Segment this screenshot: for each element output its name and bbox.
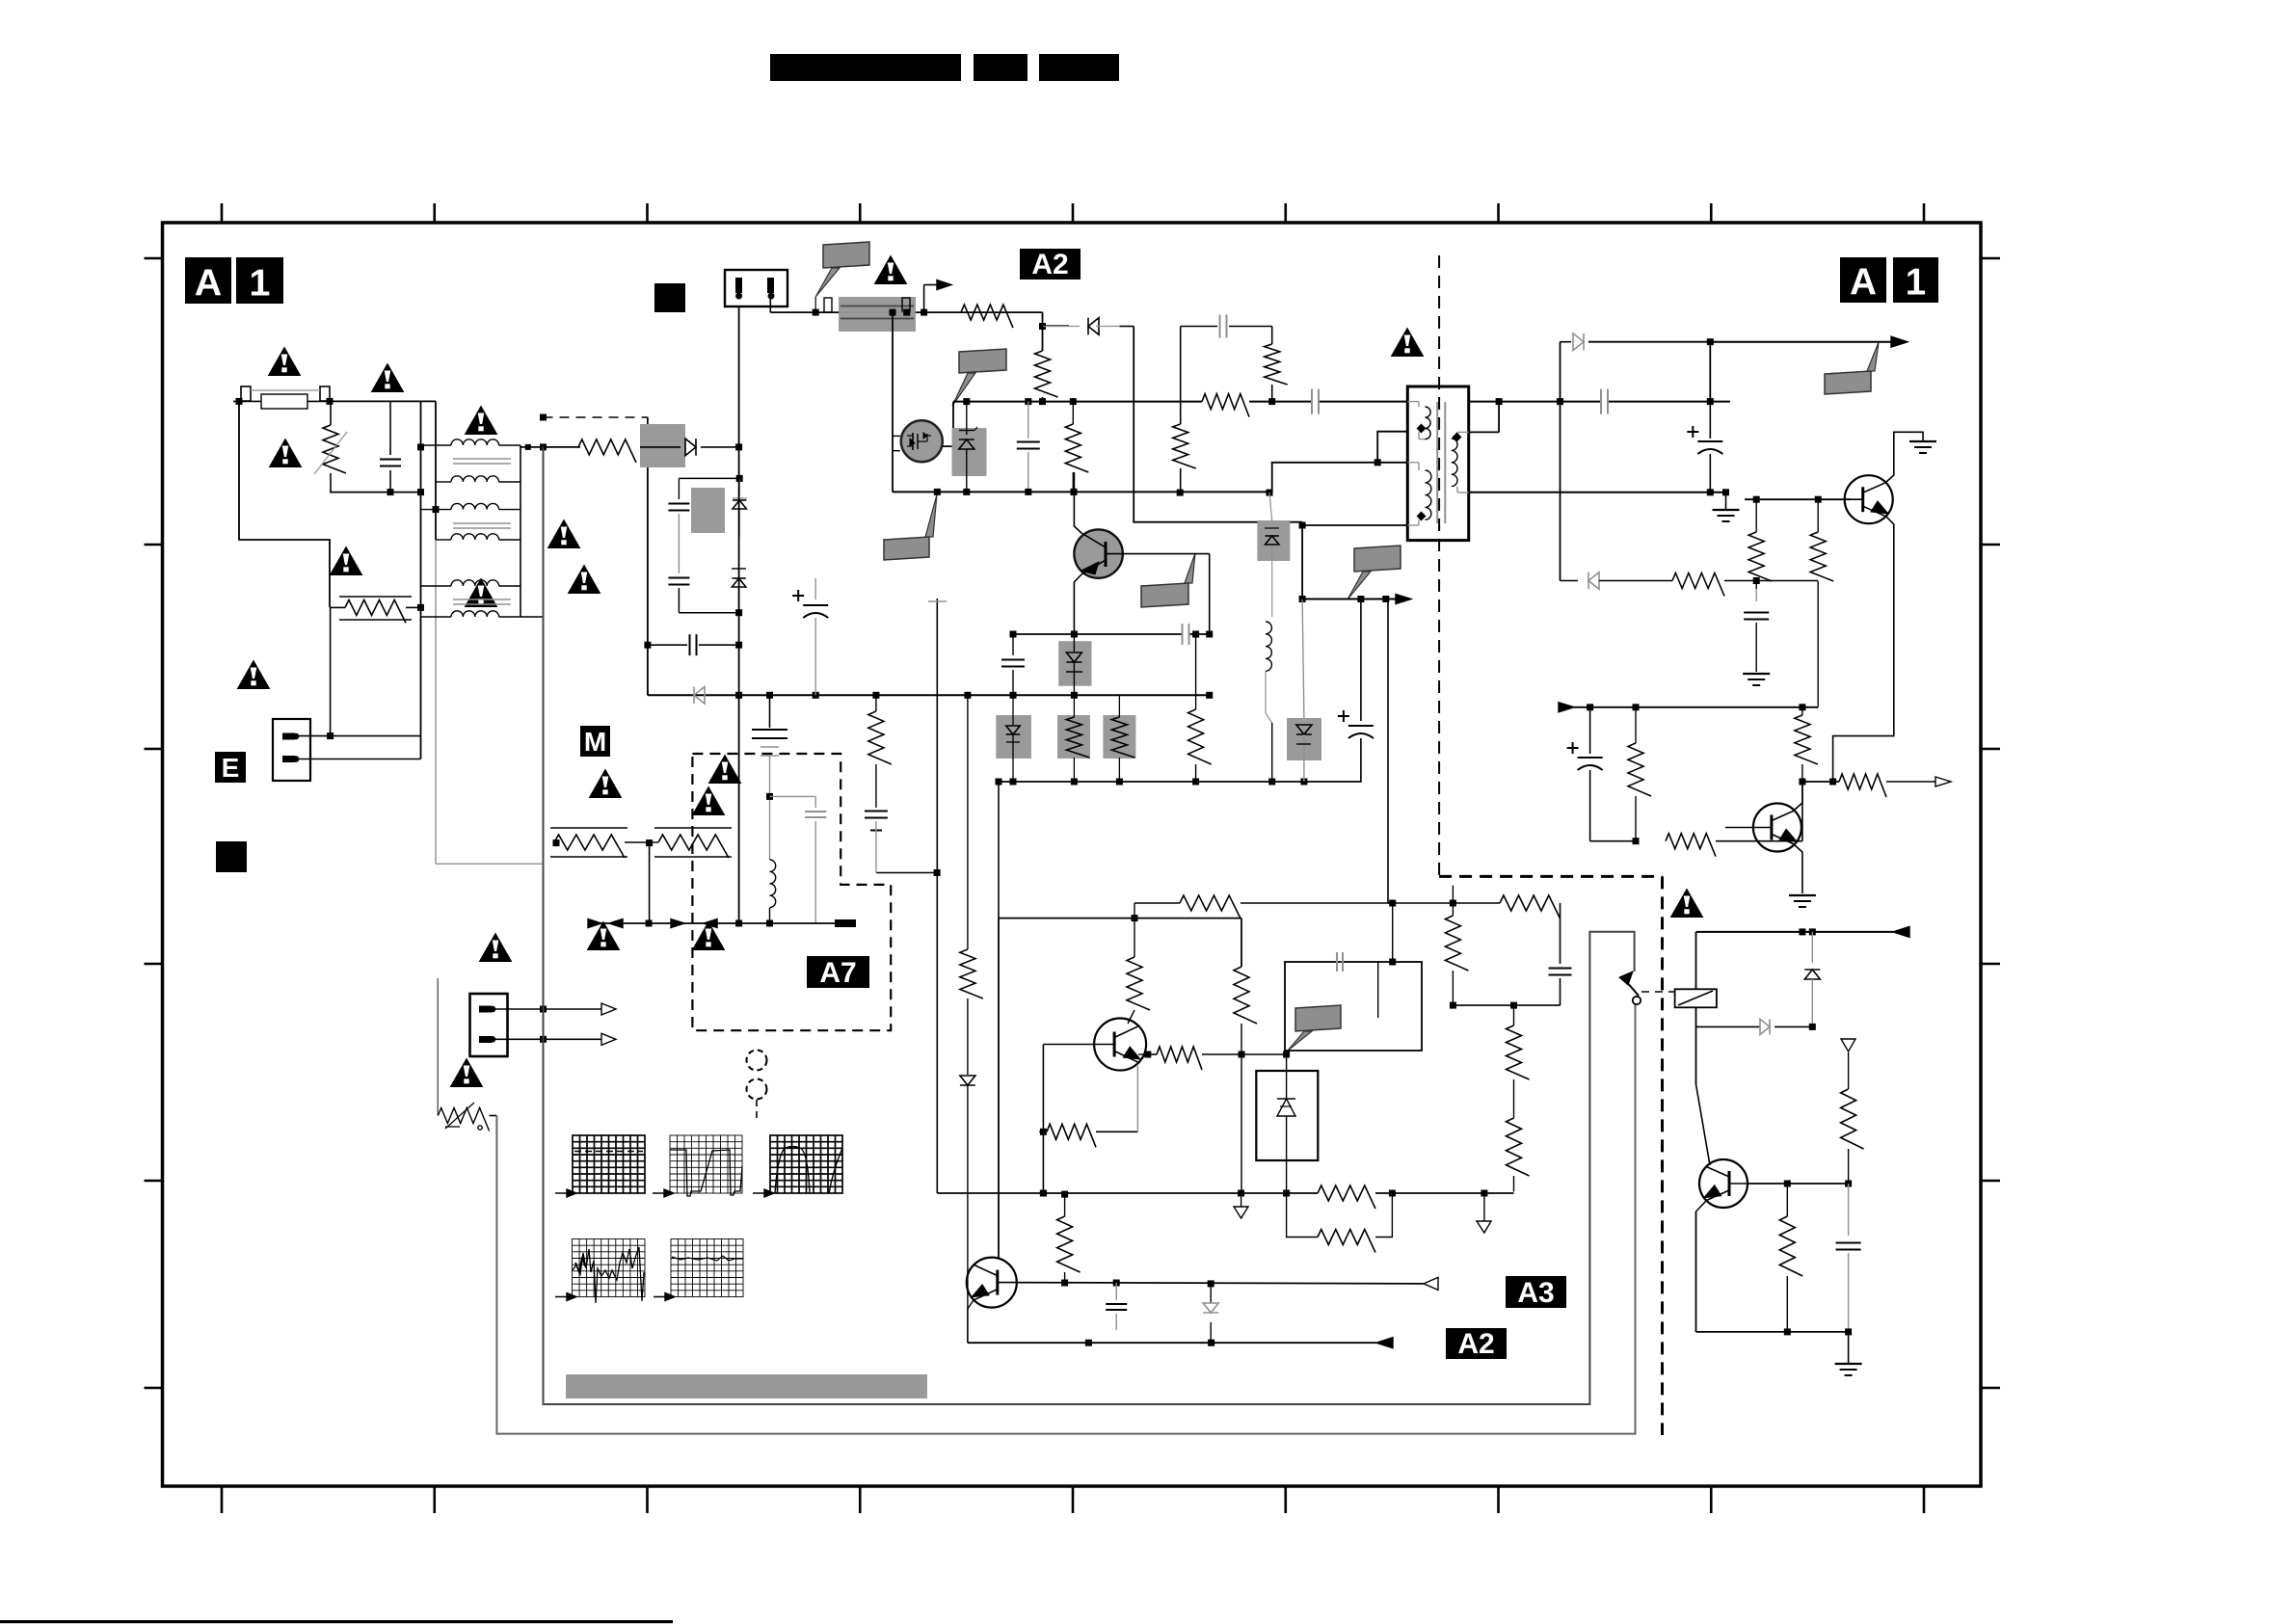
junction sec bus2: [1557, 398, 1563, 405]
callout flag 1: [823, 242, 869, 268]
capacitor C doubler: [678, 478, 680, 499]
gray box bridge: [640, 424, 685, 467]
wire A7 bottom bus: [588, 922, 848, 924]
capacitor C snub: [1181, 326, 1217, 328]
svg-text:1: 1: [1906, 262, 1926, 304]
junction aux gnd d: [872, 692, 879, 699]
wire service pin1: [493, 1008, 601, 1010]
grid arrow 5: [654, 1296, 669, 1298]
capacitor C x2: [648, 644, 687, 646]
wire ctl right: [1241, 918, 1242, 967]
junction sec ret: [1707, 489, 1714, 495]
connector E pin 2: [282, 756, 295, 762]
junction out arrow: [1707, 338, 1714, 345]
label E: [215, 752, 246, 783]
junction ctl a: [1132, 915, 1138, 921]
open arrow a3: [1424, 1277, 1438, 1290]
junction reg fb: [1753, 577, 1760, 584]
resistor R out sense: [1839, 774, 1886, 797]
wire V5-left: [647, 417, 649, 695]
junction hv a: [963, 398, 970, 405]
resistor R snub leg: [1173, 424, 1196, 468]
wire sec diode top: [1560, 342, 1561, 402]
zener D clamp: [966, 402, 968, 435]
warning triangle 4: [331, 547, 362, 575]
test point circle 2: [747, 1079, 767, 1100]
junction q4 b: [1040, 1190, 1047, 1197]
wire reg out bus: [1802, 781, 1839, 783]
connector E box: [273, 719, 310, 781]
junction v5 mid: [735, 609, 742, 616]
callout flag 5: [1825, 371, 1871, 394]
junction V2 a: [433, 506, 440, 513]
junction E pin1: [327, 732, 334, 739]
svg-text:M: M: [584, 727, 606, 757]
wire aux bus 811: [999, 781, 1362, 783]
junction ret a: [934, 489, 941, 495]
resistor R fb2: [1452, 886, 1454, 916]
label A1 top-left: [185, 257, 231, 304]
gray box zener mid: [1058, 641, 1091, 686]
label A1 top-right: [1840, 257, 1886, 303]
wire A7 link: [770, 795, 816, 797]
ground ref stb: [1841, 1039, 1855, 1052]
transformer T1 secondary winding: [1457, 431, 1469, 433]
relay K1: [1675, 989, 1717, 1007]
wire Q2 emitter: [1074, 574, 1081, 634]
wire sec return: [1469, 492, 1726, 493]
junction q5 a: [1061, 1280, 1068, 1287]
transistor Q sense: [1753, 804, 1801, 852]
resistor R snub leg2: [1265, 344, 1288, 385]
oscillogram grid 1: [573, 1135, 645, 1193]
wire service drop: [437, 978, 439, 1116]
junction aux: [1809, 1024, 1816, 1030]
junction aux gnd a: [735, 692, 742, 699]
preset pot P2: [654, 827, 732, 829]
wire fb bus 937: [1134, 902, 1180, 904]
transistor Q2 primary: [1074, 529, 1122, 577]
choke L1 winding a: [421, 444, 452, 446]
ground ref ctl2: [1483, 1193, 1485, 1221]
diode D fb: [1588, 572, 1599, 590]
wire pot drop: [649, 843, 651, 923]
capacitor C mid left: [1012, 634, 1014, 655]
callout flag 4: [1354, 546, 1401, 572]
junction pot1: [553, 839, 560, 846]
warning triangle 12: [1392, 329, 1424, 357]
warning triangle 9: [238, 661, 270, 689]
opto U1 box: [1256, 1071, 1318, 1160]
junction A7 bot2: [735, 920, 742, 927]
junction drive bus: [813, 309, 819, 316]
diode D bridge: [640, 446, 680, 448]
capacitor C X big: [769, 695, 771, 728]
junction V5 bridge: [735, 443, 742, 450]
warning triangle 16: [588, 922, 620, 950]
wire vertical V2: [435, 401, 437, 540]
dashed relay link: [1641, 991, 1675, 993]
capacitor C fb: [1549, 968, 1572, 970]
arrow start pulse: [923, 285, 925, 313]
resistor R reg2: [1817, 499, 1819, 532]
callout flag 6: [1141, 583, 1188, 607]
junction a2 b: [1208, 1340, 1214, 1346]
grid arrow 4: [555, 1296, 571, 1298]
wire stb bottom bus: [1696, 1331, 1849, 1333]
junction aux gnd h: [1206, 692, 1213, 699]
junction hv c: [1039, 398, 1046, 405]
junction stb d: [1845, 1181, 1852, 1187]
diode D a2: [960, 1076, 975, 1085]
zener gray box G8: [1257, 520, 1290, 561]
wire fb corner: [1560, 903, 1561, 964]
tl431 block box: [1285, 962, 1422, 1051]
diode D a3: [1210, 1284, 1212, 1303]
junction aux gnd g: [1071, 692, 1078, 699]
wire sense down: [1134, 327, 1302, 526]
capacitor C q5: [1115, 1283, 1117, 1300]
junction stb e: [1784, 1328, 1791, 1335]
warning triangle 15: [693, 787, 725, 815]
wire reg base bus: [1745, 498, 1851, 500]
capacitor C aux1: [865, 811, 888, 812]
resistor R aux2: [1195, 634, 1197, 709]
junction reg base b: [1815, 496, 1822, 503]
grid arrow 2: [653, 1192, 668, 1194]
title bar block 2: [974, 54, 1027, 81]
warning triangle 8: [466, 579, 497, 607]
resistor R ctl1: [1134, 903, 1135, 957]
capacitor C auxB electrolytic: [1360, 599, 1362, 722]
junction choke-out: [525, 444, 531, 450]
resistor R drive: [961, 305, 1013, 328]
zener D v5: [738, 564, 740, 574]
transformer T1 primary winding: [1407, 401, 1419, 403]
diode D snub: [1043, 326, 1080, 328]
choke L3 winding b: [421, 616, 452, 618]
arrow pair 1: [588, 919, 601, 928]
warning triangle 3: [270, 439, 302, 467]
resistor R sb2: [1666, 834, 1716, 857]
wire gate drop: [892, 312, 894, 492]
junction mid c: [1206, 631, 1213, 638]
wire tap step: [1269, 432, 1407, 493]
fuse F1: [241, 386, 251, 401]
zener D doubler: [738, 478, 740, 496]
wire Q stb collector: [1695, 1026, 1697, 1084]
resistor R q4: [1157, 1047, 1202, 1070]
resistor R fb inline: [1500, 895, 1561, 918]
wire Q sense base: [1725, 827, 1752, 829]
junction q5 b: [1113, 1280, 1120, 1287]
resistor R ctl2: [1234, 967, 1257, 1024]
grid arrow 3: [753, 1192, 768, 1194]
wire aux gnd bus 721: [647, 690, 649, 695]
isolation dashed line: [1438, 255, 1440, 876]
label A3: [1506, 1276, 1566, 1308]
junction A7 bot3: [766, 920, 773, 927]
junction V1 b: [417, 489, 424, 495]
junction row0: [996, 779, 1002, 785]
junction fb f: [1510, 1002, 1517, 1009]
wire Q4 emitter right: [1138, 1053, 1148, 1055]
junction ret c: [1025, 489, 1031, 495]
junction hv b: [1025, 398, 1031, 405]
junction ret g: [1267, 490, 1273, 496]
zener D row1: [1012, 695, 1014, 725]
PTC thermistor: [330, 606, 345, 608]
bottom rule line: [0, 1620, 673, 1623]
wire HV bus: [953, 401, 1202, 403]
junction tap: [1374, 459, 1381, 466]
isolation dashed line 2: [1661, 876, 1664, 1435]
junction mid b: [1071, 631, 1078, 638]
junction ctl f: [1481, 1190, 1487, 1197]
gray box zener row1: [996, 715, 1031, 759]
capacitor C aux electrolytic: [814, 578, 816, 599]
black square marker 2: [216, 841, 247, 872]
junction ctl d: [1238, 1190, 1244, 1197]
junction ctl b: [1239, 1052, 1245, 1058]
wire safety loop B: [496, 1003, 1635, 1434]
wire Q5 base bus: [1015, 1283, 1424, 1284]
junction V1 c: [417, 604, 424, 611]
junction aux gnd c: [813, 692, 819, 699]
resistor R row2: [1073, 695, 1075, 717]
junction q4 d: [1283, 1052, 1290, 1058]
gray redacted bar: [566, 1374, 927, 1398]
wire aux rail: [1696, 1025, 1761, 1027]
junction input-c: [387, 489, 394, 495]
wire ctl top bus: [999, 918, 1241, 919]
wire standby bus: [1696, 931, 1894, 933]
junction 811 a: [1192, 779, 1199, 785]
junction 811 b: [1268, 779, 1275, 785]
wire relay down: [1695, 1007, 1697, 1084]
junction sb b: [1633, 704, 1640, 710]
warning triangle 1: [269, 348, 301, 376]
resistor R sb: [1635, 707, 1637, 743]
warning triangle 2: [372, 364, 404, 392]
warning triangle 13: [590, 770, 622, 798]
capacitor C A7: [805, 811, 826, 812]
warning triangle 11: [875, 256, 907, 284]
wire drive bus right: [839, 311, 916, 313]
junction mid a: [1010, 631, 1017, 638]
wire mains L-loop: [239, 402, 330, 607]
connector mains pin1: [735, 278, 742, 293]
label M: [580, 726, 610, 757]
transformer T1 box: [1407, 386, 1468, 541]
choke L2 winding b: [436, 539, 451, 541]
junction auxB b: [1382, 596, 1389, 602]
choke L2 core: [453, 522, 511, 524]
junction auxB a: [1357, 596, 1364, 602]
resistor R hv inline: [1202, 394, 1249, 417]
diode D aux: [1760, 1019, 1770, 1034]
junction ret b: [963, 489, 970, 495]
junction sb c: [1799, 704, 1805, 710]
connector service pin1: [479, 1006, 492, 1013]
junction q5 d: [1061, 1191, 1068, 1198]
junction stb c: [1784, 1181, 1791, 1187]
wire E pin2: [296, 759, 421, 760]
choke L1 winding b: [436, 481, 451, 483]
warning triangle 7: [569, 566, 600, 594]
grid arrow 1: [555, 1192, 571, 1194]
resistor R reg3: [1801, 707, 1803, 715]
wire Q out emitter: [1833, 517, 1894, 782]
gray box doubler: [691, 488, 725, 533]
frame tick marks: [145, 203, 2001, 1513]
junction row1: [1010, 779, 1017, 785]
warning triangle 10: [480, 934, 512, 962]
wire safety loop A: [544, 447, 1635, 1404]
junction pot mid: [646, 839, 653, 846]
wire Q2 collector: [1074, 472, 1081, 533]
wire out drop: [1709, 342, 1711, 402]
switch S interlock: [1625, 980, 1639, 996]
capacitor C sec inline: [1600, 389, 1602, 414]
junction stb b: [1809, 928, 1816, 935]
inductor L A7: [769, 800, 771, 860]
isolation dashed horizontal: [1439, 875, 1662, 878]
label A7: [807, 956, 869, 988]
junction gate node: [890, 309, 896, 316]
wire Q stb emitter: [1696, 1201, 1707, 1211]
resistor R div1: [1513, 1005, 1515, 1025]
warning triangle 19: [1671, 890, 1703, 918]
junction hv d: [1070, 398, 1077, 405]
wire ctl feed: [998, 782, 1000, 918]
capacitor C input: [389, 401, 391, 455]
wire V5 main vertical: [738, 306, 740, 923]
oscillogram grid 2: [670, 1135, 742, 1193]
resistor R div2: [1507, 1118, 1530, 1176]
junction fb e: [1450, 1002, 1456, 1009]
ground stb: [1848, 1332, 1850, 1363]
junction sec top: [1496, 398, 1503, 405]
junction aux gnd f: [1010, 692, 1017, 699]
junction ctl c: [1040, 1190, 1047, 1197]
capacitor C clamp: [1027, 402, 1029, 439]
wire gray link: [436, 863, 544, 865]
wire mosfet drain: [943, 402, 953, 447]
preset pot P1: [550, 827, 627, 829]
wire fb bottom: [1453, 1004, 1560, 1006]
connector E pin 1: [282, 733, 295, 740]
junction x2 a: [644, 642, 651, 649]
choke L1 core: [453, 458, 511, 460]
junction sec gnd: [1722, 489, 1729, 495]
test point circle 1: [747, 1051, 767, 1071]
junction A7 bot: [646, 920, 653, 927]
capacitor C v5: [668, 577, 689, 579]
wire tl mid: [1377, 962, 1379, 1018]
wire auxB bus: [1302, 599, 1396, 600]
junction q4 a: [1040, 1129, 1047, 1135]
opto U1 led: [1286, 1054, 1288, 1099]
resistor R aux1: [875, 695, 877, 711]
wire mains pin2 drop: [769, 296, 771, 312]
ground sec: [1725, 493, 1727, 509]
wire vertical V1: [420, 401, 422, 759]
wire ctl bus 1238: [938, 1192, 1319, 1194]
junction fb d: [1450, 900, 1456, 907]
resistor R q5: [1064, 1194, 1066, 1216]
choke L2 winding a: [421, 509, 452, 511]
wire primary return bus: [893, 491, 1269, 493]
connector mains box: [725, 270, 787, 306]
wire sec HV bus: [1469, 401, 1600, 403]
junction Q2 coll: [1071, 489, 1078, 495]
gray box zener clamp: [952, 428, 987, 476]
junction fuse-left: [236, 398, 243, 405]
junction aux gnd b: [766, 692, 773, 699]
wire Q2 base right: [1122, 553, 1210, 555]
junction stb a: [1799, 928, 1805, 935]
transistor Q standby: [1699, 1159, 1748, 1208]
capacitor C tl inline: [1336, 952, 1338, 972]
wire Q sense collector: [1795, 782, 1802, 810]
arrow pair 2: [671, 919, 684, 928]
wire stub link: [876, 872, 937, 874]
potentiometer P main: [438, 1108, 489, 1131]
wire Q stb base bus: [1748, 1183, 1849, 1185]
junction sb a: [1587, 704, 1593, 710]
wire auxB sense: [1387, 599, 1389, 904]
connector mains pin2: [767, 278, 774, 293]
junction x2 b: [735, 642, 742, 649]
wire mid bus 658: [1013, 633, 1182, 635]
wire T stub: [936, 599, 938, 1193]
svg-text:E: E: [222, 753, 240, 783]
junction polyA-top: [540, 443, 547, 450]
junction stub link: [934, 869, 941, 876]
capacitor C reg: [1755, 589, 1757, 601]
junction ctl e: [1283, 1190, 1290, 1197]
wire snubber legs: [1180, 327, 1182, 425]
oscillogram grid 5: [671, 1239, 743, 1297]
label A2 top: [1020, 249, 1081, 280]
choke L3 core: [453, 599, 511, 600]
svg-text:A2: A2: [1031, 249, 1068, 280]
junction sec cap: [1707, 398, 1714, 405]
wire A2 bus: [968, 1342, 1376, 1344]
diode D output: [1573, 333, 1584, 351]
wire drive corner: [1042, 312, 1044, 351]
zener D g8: [1269, 493, 1272, 520]
diode D aux gnd: [694, 687, 705, 705]
gray box res row2: [1057, 715, 1090, 759]
capacitor C sb electrolytic: [1589, 707, 1591, 754]
svg-text:A2: A2: [1457, 1328, 1494, 1360]
dashed wire sense: [544, 416, 648, 418]
svg-text:A3: A3: [1517, 1277, 1554, 1309]
junction ret d: [1071, 489, 1078, 495]
junction reg4: [1829, 779, 1836, 785]
wire doubler top: [679, 477, 739, 479]
inductor L aux: [1266, 622, 1271, 671]
title bar block 3: [1039, 54, 1119, 81]
svg-text:A: A: [195, 261, 222, 304]
warning triangle 14: [709, 756, 741, 784]
capacitor C hv inline: [1311, 389, 1313, 414]
transistor Q4 error: [1094, 1019, 1146, 1071]
junction service 1: [540, 1006, 547, 1013]
wire aux winding drop: [1301, 525, 1303, 599]
